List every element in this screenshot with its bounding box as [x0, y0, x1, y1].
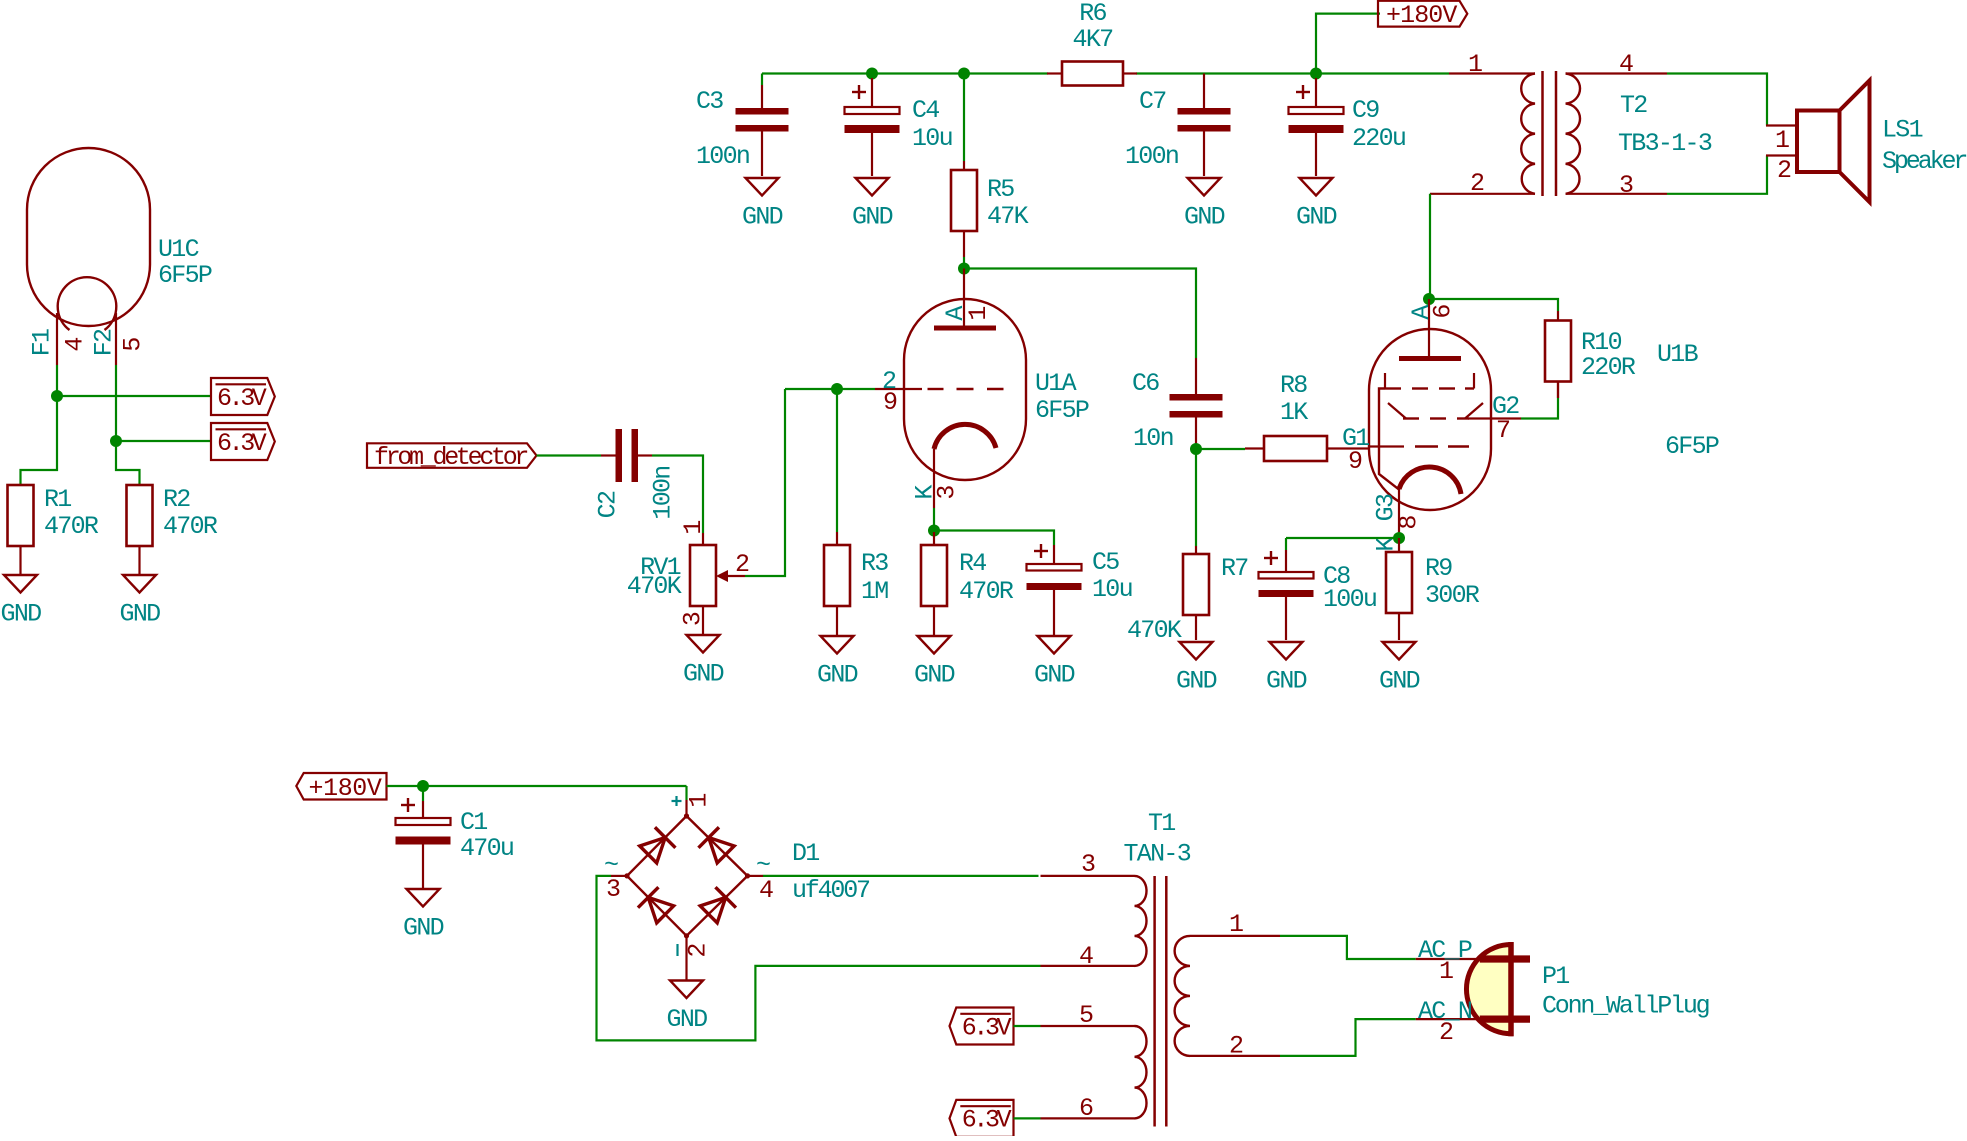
- svg-text:10u: 10u: [1092, 575, 1132, 604]
- svg-text:F1: F1: [28, 329, 57, 356]
- svg-text:R5: R5: [987, 175, 1014, 204]
- svg-text:F2: F2: [90, 329, 119, 356]
- svg-text:GND: GND: [1034, 661, 1075, 690]
- svg-text:R1: R1: [44, 485, 71, 514]
- svg-text:6F5P: 6F5P: [1035, 396, 1089, 425]
- svg-text:LS1: LS1: [1882, 116, 1923, 145]
- svg-text:GND: GND: [667, 1005, 708, 1034]
- svg-text:TAN-3: TAN-3: [1124, 840, 1191, 869]
- svg-text:GND: GND: [742, 203, 783, 232]
- svg-text:C5: C5: [1092, 548, 1119, 577]
- svg-text:GND: GND: [1176, 667, 1217, 696]
- svg-text:Speaker: Speaker: [1882, 147, 1966, 176]
- svg-text:C2: C2: [594, 491, 623, 518]
- svg-text:GND: GND: [1266, 667, 1307, 696]
- svg-text:GND: GND: [683, 660, 724, 689]
- svg-text:R3: R3: [861, 549, 888, 578]
- svg-text:C7: C7: [1139, 87, 1166, 116]
- svg-text:GND: GND: [1379, 667, 1420, 696]
- svg-text:Conn_WallPlug: Conn_WallPlug: [1542, 992, 1709, 1021]
- svg-text:9: 9: [883, 388, 897, 417]
- svg-text:1: 1: [1775, 126, 1789, 155]
- svg-text:8: 8: [1395, 516, 1424, 530]
- svg-text:1M: 1M: [861, 577, 888, 606]
- svg-text:4K7: 4K7: [1073, 25, 1114, 54]
- svg-text:1: 1: [679, 521, 708, 535]
- svg-text:470u: 470u: [460, 834, 513, 863]
- svg-text:C1: C1: [460, 808, 487, 837]
- svg-text:from_detector: from_detector: [374, 443, 527, 472]
- svg-text:6.3V: 6.3V: [217, 429, 267, 458]
- svg-text:6.3V: 6.3V: [962, 1013, 1012, 1042]
- svg-text:220u: 220u: [1352, 124, 1405, 153]
- svg-text:GND: GND: [403, 914, 444, 943]
- svg-text:U1A: U1A: [1035, 369, 1077, 398]
- svg-text:6.3V: 6.3V: [217, 384, 267, 413]
- svg-text:1: 1: [685, 794, 714, 808]
- svg-text:47K: 47K: [987, 202, 1029, 231]
- svg-text:100n: 100n: [1125, 142, 1178, 171]
- svg-text:1: 1: [1439, 957, 1453, 986]
- svg-text:2: 2: [684, 944, 713, 958]
- svg-text:3: 3: [1081, 850, 1095, 879]
- svg-text:470R: 470R: [959, 577, 1014, 606]
- svg-text:R7: R7: [1221, 554, 1248, 583]
- svg-text:100n: 100n: [696, 142, 749, 171]
- svg-text:470K: 470K: [627, 572, 682, 601]
- svg-text:2: 2: [1777, 156, 1791, 185]
- svg-text:4: 4: [1079, 942, 1093, 971]
- svg-text:R2: R2: [163, 485, 190, 514]
- svg-text:D1: D1: [792, 839, 819, 868]
- svg-text:6: 6: [1079, 1094, 1093, 1123]
- svg-text:P1: P1: [1542, 962, 1569, 991]
- svg-text:470K: 470K: [1127, 616, 1182, 645]
- svg-text:R9: R9: [1425, 554, 1452, 583]
- svg-text:6.3V: 6.3V: [962, 1106, 1012, 1135]
- svg-text:4: 4: [759, 876, 773, 905]
- svg-text:4: 4: [61, 338, 90, 352]
- svg-text:6F5P: 6F5P: [158, 261, 212, 290]
- svg-text:1K: 1K: [1280, 398, 1308, 427]
- svg-text:R4: R4: [959, 549, 986, 578]
- svg-text:10u: 10u: [912, 124, 952, 153]
- svg-text:300R: 300R: [1425, 581, 1480, 610]
- svg-text:U1B: U1B: [1657, 340, 1699, 369]
- svg-text:U1C: U1C: [158, 235, 199, 264]
- svg-text:C3: C3: [696, 87, 723, 116]
- svg-text:GND: GND: [1184, 203, 1225, 232]
- svg-text:+180V: +180V: [1386, 1, 1457, 30]
- svg-text:470R: 470R: [44, 512, 99, 541]
- svg-text:1: 1: [1229, 910, 1243, 939]
- svg-text:GND: GND: [852, 203, 893, 232]
- svg-text:T1: T1: [1148, 809, 1175, 838]
- svg-text:C4: C4: [912, 96, 939, 125]
- svg-text:100n: 100n: [649, 466, 678, 519]
- svg-text:R6: R6: [1079, 0, 1106, 28]
- svg-text:6F5P: 6F5P: [1665, 432, 1719, 461]
- svg-text:TB3-1-3: TB3-1-3: [1618, 129, 1712, 158]
- svg-text:1: 1: [964, 307, 993, 321]
- svg-text:7: 7: [1496, 416, 1510, 445]
- svg-text:+180V: +180V: [309, 774, 382, 803]
- svg-text:10n: 10n: [1133, 424, 1173, 453]
- svg-text:GND: GND: [1296, 203, 1337, 232]
- svg-text:9: 9: [1348, 447, 1362, 476]
- svg-text:100u: 100u: [1323, 585, 1376, 614]
- svg-text:2: 2: [1439, 1018, 1453, 1047]
- svg-text:C9: C9: [1352, 96, 1379, 125]
- svg-text:uf4007: uf4007: [792, 876, 870, 905]
- svg-text:3: 3: [606, 875, 620, 904]
- svg-text:3: 3: [1619, 171, 1633, 200]
- svg-text:6: 6: [1429, 305, 1458, 319]
- svg-text:5: 5: [1079, 1001, 1093, 1030]
- svg-text:2: 2: [1229, 1032, 1243, 1061]
- svg-text:1: 1: [1468, 50, 1482, 79]
- svg-text:GND: GND: [120, 600, 161, 629]
- svg-text:3: 3: [933, 486, 962, 500]
- svg-text:220R: 220R: [1581, 353, 1636, 382]
- svg-text:GND: GND: [817, 661, 858, 690]
- svg-text:5: 5: [119, 338, 148, 352]
- svg-text:2: 2: [735, 550, 749, 579]
- svg-text:GND: GND: [1, 600, 42, 629]
- svg-text:R8: R8: [1280, 371, 1307, 400]
- svg-text:2: 2: [1470, 169, 1484, 198]
- svg-text:C6: C6: [1132, 369, 1159, 398]
- svg-text:4: 4: [1619, 50, 1633, 79]
- svg-text:GND: GND: [914, 661, 955, 690]
- svg-text:T2: T2: [1620, 91, 1647, 120]
- svg-text:470R: 470R: [163, 512, 218, 541]
